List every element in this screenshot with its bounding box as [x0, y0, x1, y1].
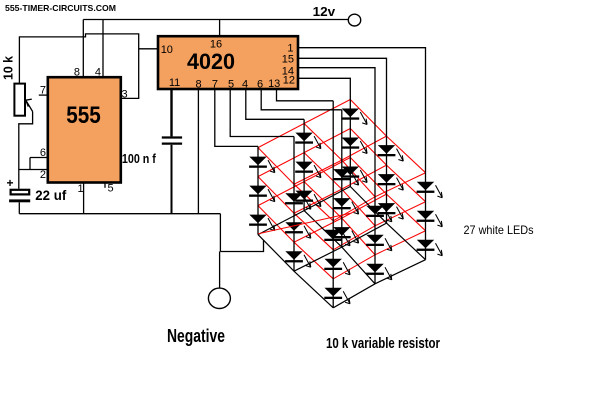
wire red layer1 SE line 0	[258, 148, 333, 221]
wire LED column 00	[257, 146, 259, 234]
wire red layer1 NE line 0	[258, 100, 350, 148]
wire C2 to ground rail	[171, 145, 173, 214]
LED D10 (col 01 layer 1)	[295, 133, 321, 149]
wire U2 pin4 to LED column 01	[246, 89, 304, 119]
wire U2 pin14 to LED column 21	[298, 68, 375, 197]
wire red layer1 SE line 2	[350, 100, 425, 173]
svg-text:7: 7	[40, 85, 46, 97]
wire red layer2 NE line 1	[294, 165, 387, 213]
wire LED column 02	[349, 100, 351, 187]
wire bottom grid NE line 1	[294, 223, 387, 271]
svg-text:10 k variable resistor: 10 k variable resistor	[326, 335, 440, 352]
wire bottom grid SE line 2	[350, 187, 425, 260]
wire U2 pin10 stub	[139, 48, 158, 50]
capacitor C2 100nf bottom plate	[162, 142, 182, 144]
wire bottom grid SE line 0	[258, 235, 333, 308]
svg-text:15: 15	[282, 53, 294, 65]
wire LED column 11	[341, 110, 343, 247]
wire LED column 21	[374, 197, 376, 284]
wire U2 pin15 to LED column 12	[298, 58, 387, 136]
wire U1 pin4 to V+	[102, 20, 104, 78]
LED D3 (col 00 layer 3)	[249, 215, 275, 231]
svg-text:11: 11	[169, 77, 180, 89]
LED D20 (col 02 layer 2)	[341, 138, 367, 154]
LED D17 (col 21 layer 2)	[366, 235, 392, 251]
svg-text:16: 16	[210, 39, 222, 51]
wire U1 pin8 to V+	[82, 20, 84, 78]
LED D14 (col 11 layer 2)	[333, 198, 359, 214]
LED D1 (col 00 layer 1)	[249, 157, 275, 173]
wire output net: 555 pin3 to resistor top and 4020 pin10	[19, 34, 138, 99]
wire bottom grid SE line 1	[304, 211, 375, 284]
wire red layer3 SE line 2	[350, 158, 425, 231]
wire red layer3 NE line 0	[258, 158, 350, 206]
resistor VR1 wiper arrow	[26, 99, 33, 111]
wire red layer3 NE line 2	[333, 231, 425, 279]
IC U1 555	[48, 77, 121, 182]
svg-text:13: 13	[268, 78, 280, 90]
svg-text:12v: 12v	[313, 5, 336, 19]
svg-text:Negative: Negative	[167, 326, 225, 346]
svg-text:555: 555	[66, 102, 101, 129]
LED D21 (col 02 layer 3)	[341, 167, 367, 183]
wire U2 pin1 to LED column 22	[298, 48, 426, 173]
svg-text:4: 4	[95, 67, 101, 79]
wire LED column 12	[386, 136, 388, 223]
LED D4 (col 10 layer 1)	[285, 193, 311, 209]
svg-text:12: 12	[283, 75, 295, 87]
IC U2 4020	[158, 36, 298, 89]
LED D12 (col 01 layer 3)	[295, 191, 321, 207]
wire U1 pin1 to ground	[83, 183, 85, 214]
wire C1 to ground rail	[18, 202, 20, 213]
LED D25 (col 22 layer 1)	[417, 182, 443, 198]
svg-text:8: 8	[74, 67, 80, 79]
LED D8 (col 20 layer 2)	[324, 259, 350, 275]
LED D16 (col 21 layer 1)	[366, 206, 392, 222]
node ground rail	[19, 213, 220, 215]
wire red layer1 NE line 2	[333, 173, 425, 221]
wire red layer2 SE line 1	[304, 153, 375, 226]
wire U2 pin16 to V+	[219, 20, 221, 37]
wire red layer3 tie to ground corner	[258, 213, 350, 234]
wire bottom grid NE line 0	[258, 187, 350, 235]
LED D26 (col 22 layer 2)	[417, 211, 443, 227]
svg-text:100 n f: 100 n f	[122, 152, 157, 166]
wire bottom grid NE line 2	[333, 260, 425, 308]
wire red layer3 SE line 0	[258, 206, 333, 279]
LED D24 (col 12 layer 3)	[378, 203, 404, 219]
wire LED column 01	[303, 119, 305, 210]
LED D7 (col 20 layer 1)	[324, 230, 350, 246]
wire ground to Negative terminal	[219, 252, 221, 288]
LED D6 (col 10 layer 3)	[285, 251, 311, 267]
svg-text:555-TIMER-CIRCUITS.COM: 555-TIMER-CIRCUITS.COM	[5, 3, 116, 13]
wire red layer2 NE line 0	[258, 129, 350, 177]
wire U2 pin6 to LED column 11	[261, 89, 342, 110]
wire U2 pin12 to LED column 02	[298, 78, 350, 99]
capacitor C2 100nf top plate	[162, 136, 182, 138]
terminal 12v	[348, 14, 360, 26]
svg-text:2: 2	[40, 169, 46, 181]
LED D18 (col 21 layer 3)	[366, 264, 392, 280]
svg-text:5: 5	[108, 183, 114, 195]
wire 555 pin6 net	[30, 158, 48, 170]
node V+ rail	[83, 19, 348, 21]
svg-text:4020: 4020	[187, 49, 235, 74]
svg-text:8: 8	[196, 79, 202, 91]
wire 555 pin2 net	[19, 169, 48, 171]
wire U2 pin7 to LED column 00	[215, 89, 258, 146]
LED D5 (col 10 layer 2)	[285, 222, 311, 238]
capacitor C1 22uf bottom plate	[9, 199, 30, 202]
wire ground rail down	[219, 214, 221, 252]
wire U1 pin5 stub	[104, 183, 106, 188]
svg-text:+: +	[7, 176, 14, 190]
wire U2 pin8 to ground	[197, 89, 199, 214]
svg-text:10: 10	[161, 44, 173, 56]
capacitor C1 22uf top plate	[11, 190, 30, 195]
svg-text:5: 5	[228, 79, 234, 91]
terminal Negative	[208, 288, 230, 308]
wire LED column 10	[293, 137, 295, 272]
wire red layer1 SE line 1	[304, 124, 375, 197]
LED D2 (col 00 layer 2)	[249, 186, 275, 202]
LED D22 (col 12 layer 1)	[378, 145, 404, 161]
LED D9 (col 20 layer 3)	[324, 288, 350, 304]
svg-text:22 uf: 22 uf	[35, 188, 66, 203]
LED D19 (col 02 layer 1)	[341, 109, 367, 125]
svg-text:6: 6	[257, 79, 263, 91]
LED D23 (col 12 layer 2)	[378, 174, 404, 190]
LED D15 (col 11 layer 3)	[333, 227, 359, 243]
wire red layer2 NE line 2	[333, 202, 425, 250]
resistor VR1 10k body	[14, 84, 25, 116]
wire red layer2 SE line 2	[350, 129, 425, 202]
wire red layer1 NE line 1	[294, 136, 387, 184]
wire U2 pin13 to LED column 20	[277, 89, 334, 101]
wire LED column 22	[425, 173, 427, 260]
svg-text:7: 7	[212, 79, 218, 91]
svg-text:6: 6	[40, 147, 46, 159]
LED D11 (col 01 layer 2)	[295, 162, 321, 178]
wire U2 pin5 to LED column 10	[230, 89, 294, 137]
wire red layer3 SE line 1	[304, 182, 375, 255]
wire red layer2 SE line 0	[258, 177, 333, 250]
LED D13 (col 11 layer 1)	[333, 169, 359, 185]
svg-text:4: 4	[242, 79, 248, 91]
wire U1 pin7 stub	[39, 94, 48, 96]
svg-text:1: 1	[78, 183, 84, 195]
wire ground to LED cube	[220, 240, 263, 252]
wire VR1 wiper down to C1/pins 2,6	[19, 112, 33, 189]
wire U2 pin11 to C2	[170, 89, 172, 136]
wire LED column 20	[332, 101, 334, 308]
svg-text:27 white LEDs: 27 white LEDs	[464, 223, 534, 237]
svg-text:10 k: 10 k	[2, 56, 16, 80]
wire red layer3 NE line 1	[294, 194, 387, 242]
LED D27 (col 22 layer 3)	[417, 240, 443, 256]
svg-text:3: 3	[122, 89, 128, 101]
